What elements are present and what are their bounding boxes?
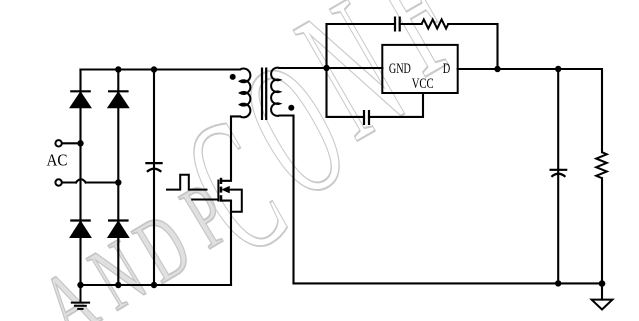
capacitor C1 bulk [145,163,162,172]
transformer T1 primary winding [240,69,250,118]
wire bottom rail secondary [294,282,603,284]
wire top rail [81,68,241,70]
transistor Q1 MOSFET [191,178,242,212]
node junction dots [77,65,605,288]
diode D4 [108,221,129,238]
wire secondary bottom lead [280,116,294,284]
node bottom rail / branch1 [77,282,83,288]
node AC neutral [115,179,121,185]
watermark company name outline text [26,163,246,321]
node top rail / branch2 [115,66,121,72]
svg-text:VCC: VCC [412,76,434,92]
diode D3 [70,221,91,238]
pulse waveform gate drive [166,175,208,190]
node output ground [599,280,606,287]
transformer T1 secondary phase dot [288,105,294,111]
node bottom rail / branch2 [115,282,121,288]
wire VCC rail [327,93,424,117]
wire snubber right vertical [496,24,498,69]
wire secondary top lead [280,67,383,69]
wire output cap branch [557,69,559,283]
wire snubber middle segment [400,23,422,25]
wire bridge branch 1 [79,70,81,286]
wire MOSFET drain to transformer [221,116,240,180]
wire MOSFET source to rail [221,201,231,285]
node GND net [323,65,329,71]
wire AC neutral lead with hop [62,179,118,182]
diode D1 [70,91,91,107]
transformer T1 core [262,68,266,121]
transformer T1 primary phase dot [230,74,236,80]
node output cap top [555,66,561,72]
capacitor C4 output [550,170,568,177]
node bottom rail / branch3 [151,282,157,288]
AC terminal top [55,140,61,146]
svg-text:AC: AC [47,151,68,170]
wire bottom rail primary [81,284,232,286]
wire AC live lead [62,142,81,144]
watermark CONFIDENTIAL outline text [154,0,489,297]
resistor R2 load [596,152,607,178]
AC terminal bottom [55,179,61,185]
diode D2 [108,91,129,107]
capacitor C3 VCC decoupling [364,110,369,125]
ground chassis right [592,300,613,310]
wire snubber top left segment [327,23,396,25]
wire GND node vertical [325,24,327,117]
wire bridge branch 3 [153,70,155,286]
node output cap bottom [555,280,561,286]
capacitor C2 snubber [395,17,400,32]
wire D pin to output [458,69,602,152]
transistor Q1 body arrow [222,186,230,193]
transformer T1 secondary winding [271,68,279,116]
svg-text:GND: GND [389,61,411,77]
IC U1 controller box [382,45,457,93]
wire snubber right segment [448,23,497,25]
svg-text:D: D [443,61,451,77]
resistor R1 snubber [422,19,449,28]
wire bridge branch 2 [117,70,119,286]
node top rail / branch3 [151,66,157,72]
node AC live [77,140,83,146]
node D net snubber [494,66,500,72]
wire output resistor bottom [601,178,603,299]
ground earth left [71,285,90,309]
